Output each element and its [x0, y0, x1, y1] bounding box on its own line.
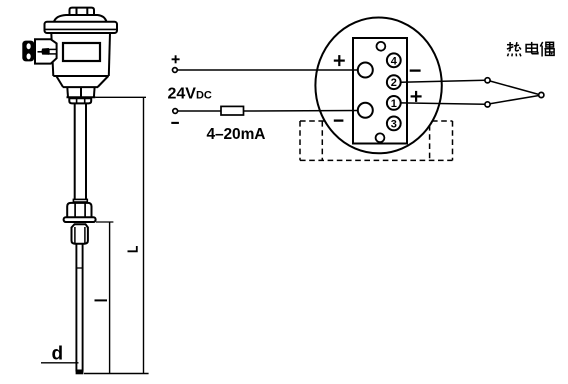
label L (rotated) [128, 246, 137, 251]
screw hole bottom [376, 133, 385, 142]
label + supply [172, 55, 180, 63]
dimension baseline [84, 373, 149, 375]
cap screw knob [70, 8, 95, 15]
node - supply end [173, 109, 178, 114]
hex nut (head) [63, 87, 98, 97]
extension tube [75, 103, 86, 199]
wire - supply left [178, 110, 222, 112]
wire thermocouple upper [401, 80, 485, 82]
terminal 3 [387, 117, 401, 131]
washer flange [64, 217, 96, 222]
dashed mounting bracket [300, 121, 453, 160]
cable gland clamp detail [38, 51, 43, 53]
cable gland knurled nut [22, 41, 34, 62]
wire junction lower [490, 96, 539, 104]
dimension leader upper (L) [95, 96, 146, 98]
svg-text:3: 3 [391, 118, 397, 130]
housing body [51, 33, 110, 76]
svg-text:4–20mA: 4–20mA [207, 126, 266, 143]
svg-text:d: d [52, 344, 64, 365]
热 [507, 42, 521, 56]
wire - supply right [244, 110, 359, 113]
cable gland body [35, 39, 57, 63]
screw hole top [377, 42, 386, 51]
偶 [540, 42, 555, 57]
terminal block [353, 38, 407, 144]
resistor 4-20mA load [221, 106, 244, 115]
label + terminal top [334, 55, 345, 66]
terminal + (large) [358, 63, 373, 78]
label - terminal bottom [334, 119, 344, 121]
wire + supply [177, 69, 358, 71]
cover flange [45, 22, 118, 33]
node thermocouple upper [485, 78, 490, 83]
terminal 1 [387, 96, 401, 110]
dimension line L [143, 97, 145, 373]
label + terminal right lower [411, 91, 422, 102]
ferrule ring [69, 98, 91, 103]
wire junction upper [490, 81, 539, 95]
dimension line l [109, 222, 111, 374]
node junction [539, 92, 544, 97]
neck taper [56, 76, 108, 87]
电 [526, 42, 538, 54]
compression fitting [72, 224, 88, 244]
wire thermocouple lower [401, 103, 485, 104]
svg-text:2: 2 [391, 77, 397, 89]
node thermocouple lower [485, 102, 490, 107]
terminal 4 [387, 53, 401, 67]
process hex nut [67, 203, 91, 217]
svg-text:1: 1 [391, 98, 397, 110]
label - supply [171, 122, 179, 124]
svg-text:4: 4 [391, 55, 398, 67]
weld collar [73, 199, 87, 202]
probe tip [76, 370, 84, 375]
label - terminal right upper [410, 69, 421, 71]
leader d [41, 362, 79, 364]
terminal head circle [315, 18, 441, 154]
probe sheath [76, 244, 82, 372]
terminal 2 [387, 75, 401, 89]
node + supply end [173, 68, 178, 73]
dimension leader lower (l) [96, 221, 113, 223]
label l (rotated) [95, 299, 108, 301]
display window [63, 43, 100, 61]
terminal - (large) [358, 103, 373, 118]
cover dome [54, 15, 107, 22]
label 热电偶 (drawn glyphs) [507, 42, 555, 57]
